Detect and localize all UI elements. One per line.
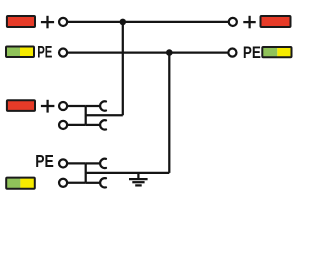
bridge bar B (rows 5-6 commoning bar) [85, 163, 87, 182]
wire row 2 bus [68, 51, 229, 53]
ground symbol bar 2 [132, 181, 144, 183]
wire stub row 3 to test socket [86, 105, 101, 107]
wire row 3 to bridge A [68, 105, 86, 107]
junction row 2 / vertical feed [166, 49, 173, 56]
marker tag green/yellow PE (row 2 right) [262, 47, 291, 57]
polarity label + (row 1 left) [41, 16, 54, 28]
wire stub row 4 to test socket [86, 124, 101, 126]
svg-text:PE: PE [35, 151, 54, 171]
wire stub row 5 to test socket [86, 162, 101, 164]
ground symbol bar 1 [129, 178, 148, 180]
wire row 6 to bridge B [68, 182, 86, 184]
marker tag red (row 3) [7, 100, 35, 111]
ground symbol stem [137, 173, 139, 178]
test-plug socket contact (row 6) [100, 178, 106, 187]
marker tag red (row 1 left) [7, 16, 35, 27]
wire stub row 6 to test socket [86, 182, 101, 184]
bridge bar A (rows 3-4 commoning bar) [85, 106, 87, 125]
test-plug socket contact (row 4) [100, 120, 106, 129]
wire row 5 to bridge B [68, 162, 86, 164]
polarity label + (row 3) [41, 100, 55, 113]
marker tag red (row 1 right) [261, 16, 291, 27]
marker tag green/yellow PE (row 6) [6, 178, 35, 189]
ground symbol bar 3 [135, 184, 142, 186]
polarity label + (row 1 right) [243, 16, 255, 28]
svg-text:PE: PE [37, 44, 52, 62]
junction row 1 / vertical feed [120, 19, 127, 26]
wire bridge A to vertical feed [86, 114, 123, 116]
terminal point (row 1 right) [229, 18, 237, 26]
terminal point (row 1 left) [59, 18, 67, 26]
wire vertical from row-1 junction down to bridge A [122, 22, 124, 115]
terminal point (row 3) [59, 102, 67, 110]
wire vertical from row-2 junction down to bridge B [168, 53, 170, 173]
terminal point (row 2 right) [228, 49, 236, 57]
marker tag green/yellow PE (row 2 left) [6, 47, 34, 58]
terminal point (row 4) [59, 121, 67, 129]
wire bridge B to vertical feed [86, 172, 170, 174]
terminal point (row 5) [59, 159, 67, 167]
wire row 4 to bridge A [68, 124, 86, 126]
terminal point (row 6) [59, 179, 67, 187]
terminal point (row 2 left) [59, 49, 67, 57]
wire row 1 bus [68, 21, 228, 23]
svg-text:PE: PE [243, 43, 261, 62]
test-plug socket contact (row 5) [100, 159, 106, 168]
test-plug socket contact (row 3) [100, 101, 106, 110]
